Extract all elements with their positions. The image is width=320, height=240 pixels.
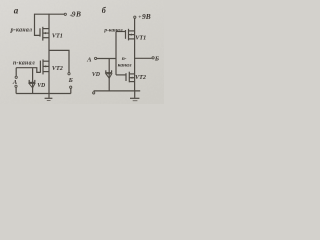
svg-text:а: а bbox=[14, 6, 19, 16]
svg-text:VT1: VT1 bbox=[135, 34, 146, 41]
svg-text:Б: Б bbox=[154, 56, 159, 63]
svg-text:p-канал: p-канал bbox=[103, 28, 122, 34]
svg-text:канал: канал bbox=[118, 62, 132, 68]
svg-text:VT1: VT1 bbox=[52, 32, 63, 39]
svg-text:VD: VD bbox=[37, 83, 46, 89]
svg-text:n-канал: n-канал bbox=[13, 61, 35, 67]
svg-text:9В: 9В bbox=[142, 12, 151, 21]
svg-text:VT2: VT2 bbox=[52, 65, 63, 72]
svg-text:А: А bbox=[86, 57, 92, 64]
svg-text:Б: Б bbox=[68, 77, 73, 84]
svg-text:+: + bbox=[138, 14, 141, 20]
svg-text:VD: VD bbox=[92, 72, 101, 78]
svg-text:А: А bbox=[12, 79, 18, 86]
svg-text:n-: n- bbox=[122, 56, 127, 62]
svg-text:VT2: VT2 bbox=[135, 74, 146, 81]
svg-text:9В: 9В bbox=[72, 10, 82, 19]
svg-text:p-канал: p-канал bbox=[10, 28, 33, 34]
